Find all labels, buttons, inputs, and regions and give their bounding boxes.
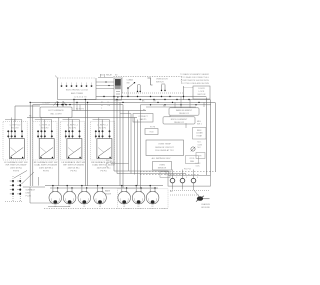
svg-text:1: 1 <box>176 177 177 179</box>
svg-text:SENSOR CIRCUIT: SENSOR CIRCUIT <box>155 147 174 149</box>
svg-text:P1 P2 P3: P1 P2 P3 <box>76 108 84 110</box>
svg-text:LR SURFACE UNIT SW.: LR SURFACE UNIT SW. <box>61 161 85 164</box>
svg-text:DUAL SWITCH 3400W: DUAL SWITCH 3400W <box>92 164 115 167</box>
svg-text:DOTTED LINES ARE SHOWN: DOTTED LINES ARE SHOWN <box>182 82 210 85</box>
svg-text:SELF: SELF <box>197 130 203 132</box>
svg-text:RF SURFACE UNIT SW.: RF SURFACE UNIT SW. <box>34 161 59 164</box>
svg-text:OVEN: OVEN <box>159 164 165 166</box>
svg-text:CLEAN: CLEAN <box>127 78 134 81</box>
svg-text:TO SURF: TO SURF <box>42 103 51 105</box>
svg-text:N.O.: N.O. <box>198 142 202 144</box>
svg-text:N.C.: N.C. <box>198 147 202 149</box>
svg-text:INF. SWITCH 2350W: INF. SWITCH 2350W <box>6 165 28 167</box>
svg-text:INF. SWITCH 1800W: INF. SWITCH 1800W <box>63 165 85 167</box>
svg-text:1100 OHMS AT 75 F: 1100 OHMS AT 75 F <box>155 149 175 152</box>
svg-text:LOCK: LOCK <box>199 91 205 93</box>
svg-text:MOTOR: MOTOR <box>198 94 206 96</box>
svg-text:BAKE ELEMENT: BAKE ELEMENT <box>176 109 193 112</box>
svg-text:W: W <box>106 166 108 168</box>
svg-text:2600W: 2600W <box>105 193 111 195</box>
svg-text:SW: SW <box>127 82 130 84</box>
svg-text:CHASSIS: CHASSIS <box>201 203 210 206</box>
svg-text:SWITCH: SWITCH <box>156 82 164 84</box>
svg-text:CONVECT: CONVECT <box>138 116 148 118</box>
svg-text:TOD: TOD <box>149 132 154 134</box>
svg-text:P3 P4: P3 P4 <box>71 171 78 173</box>
svg-text:3: 3 <box>197 177 198 179</box>
svg-text:H2 N P2: H2 N P2 <box>41 127 48 129</box>
svg-text:IND. LIGHT: IND. LIGHT <box>50 114 62 116</box>
svg-text:240V (8 IN.): 240V (8 IN.) <box>10 168 22 170</box>
svg-text:COIL: COIL <box>196 166 200 168</box>
svg-text:240V (6/9 IN.): 240V (6/9 IN.) <box>39 168 53 170</box>
svg-text:SURFACE: SURFACE <box>26 189 36 192</box>
svg-text:P9: P9 <box>199 155 201 157</box>
svg-text:K3: K3 <box>115 74 117 76</box>
svg-text:2: 2 <box>186 177 187 179</box>
svg-text:TO READ DISCONNECT ALL: TO READ DISCONNECT ALL <box>182 76 209 79</box>
svg-text:COMPONENTS SHOWN WITH: COMPONENTS SHOWN WITH <box>181 80 210 82</box>
svg-text:RELAY: RELAY <box>106 73 113 76</box>
svg-text:ELECTRONIC CLOCK: ELECTRONIC CLOCK <box>66 90 89 92</box>
svg-text:LF SURFACE UNIT SW.: LF SURFACE UNIT SW. <box>4 161 28 164</box>
svg-text:H2 N P2: H2 N P2 <box>11 127 18 129</box>
svg-text:240V (6 IN.): 240V (6 IN.) <box>68 168 80 170</box>
svg-text:SW 1: SW 1 <box>197 124 202 126</box>
svg-text:MDL: MDL <box>197 121 201 123</box>
svg-text:OVEN TEMP: OVEN TEMP <box>158 143 171 145</box>
svg-text:BROIL ELEMENT: BROIL ELEMENT <box>171 119 188 121</box>
svg-text:CLEAN: CLEAN <box>196 132 203 135</box>
svg-text:HOT SURFACE: HOT SURFACE <box>48 109 64 112</box>
svg-text:GROUND: GROUND <box>201 207 210 209</box>
svg-text:RELAY K2: RELAY K2 <box>174 121 185 124</box>
svg-text:P3 P4: P3 P4 <box>13 171 20 173</box>
svg-text:H2 N P2: H2 N P2 <box>99 127 106 129</box>
svg-text:DUAL SWITCH 3400W: DUAL SWITCH 3400W <box>35 164 58 167</box>
svg-text:FAN: FAN <box>190 160 194 163</box>
svg-text:LOCK: LOCK <box>196 163 202 165</box>
svg-text:COM: COM <box>198 144 203 146</box>
svg-text:OVEN DOOR: OVEN DOOR <box>156 79 168 81</box>
svg-text:P3 P4: P3 P4 <box>101 171 108 173</box>
svg-text:P7 P8: P7 P8 <box>150 126 155 128</box>
svg-text:PLUG: PLUG <box>26 196 32 198</box>
svg-text:RELAY K1: RELAY K1 <box>179 112 190 115</box>
svg-text:AND TIMER: AND TIMER <box>71 92 83 95</box>
svg-text:P3 P4: P3 P4 <box>43 171 50 173</box>
svg-text:P11 P12: P11 P12 <box>184 168 191 170</box>
svg-text:DOOR: DOOR <box>198 88 205 90</box>
svg-text:P10: P10 <box>106 160 109 162</box>
svg-text:240V (6/9 IN.): 240V (6/9 IN.) <box>97 168 111 170</box>
svg-text:P6: P6 <box>143 109 145 111</box>
svg-text:H2 N P2: H2 N P2 <box>69 127 76 129</box>
svg-text:COOL: COOL <box>189 158 194 160</box>
svg-text:TO MAKE SCHEMATIC EASIER: TO MAKE SCHEMATIC EASIER <box>180 73 210 76</box>
svg-text:ALL RATINGS 240V: ALL RATINGS 240V <box>152 157 171 160</box>
svg-text:BAKE: BAKE <box>105 190 111 193</box>
svg-text:TSTAT: TSTAT <box>196 135 203 138</box>
svg-text:1 2 3 4 5 6 7 8: 1 2 3 4 5 6 7 8 <box>74 96 88 98</box>
svg-text:SENSOR: SENSOR <box>158 168 167 170</box>
